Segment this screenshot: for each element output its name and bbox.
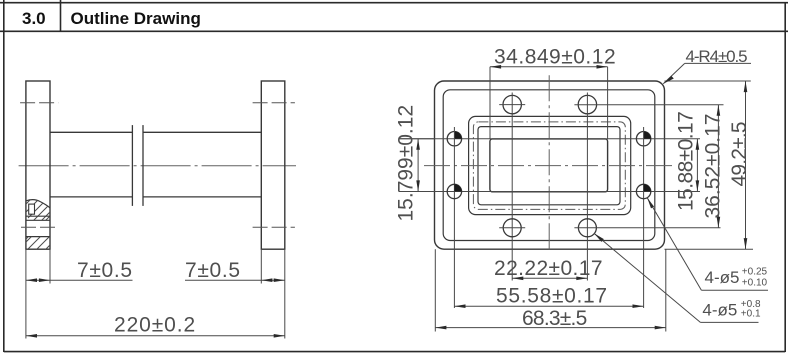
svg-text:34.849±0.12: 34.849±0.12 [494, 46, 616, 69]
flange outer outline [435, 81, 665, 249]
hole bottom-right [578, 219, 596, 237]
dimension 15.88 vertical [696, 139, 698, 192]
waveguide aperture [490, 139, 608, 192]
extension lines left view [26, 250, 285, 339]
svg-text:4-ø5: 4-ø5 [705, 268, 740, 287]
side hole left-top [447, 127, 461, 308]
svg-text:+0.25: +0.25 [742, 267, 768, 278]
dimension 34.849 [490, 66, 608, 68]
svg-text:220±0.2: 220±0.2 [114, 314, 196, 337]
svg-text:3.0: 3.0 [22, 9, 46, 28]
left flange [26, 81, 50, 249]
svg-text:49.2±.5: 49.2±.5 [728, 122, 751, 186]
dimension 36.52 vertical [717, 105, 719, 228]
horizontal centerline [424, 165, 676, 167]
svg-text:55.58±0.17: 55.58±0.17 [496, 285, 608, 308]
flange inner outline [443, 90, 655, 241]
vertical centerline [548, 75, 550, 252]
side hole left-bottom [447, 184, 461, 198]
side hole row lines [399, 138, 701, 140]
wire tube bottom [50, 196, 132, 198]
dimension 22.22 [512, 277, 587, 279]
hole bottom-left [503, 219, 521, 237]
right flange [261, 81, 285, 249]
dimension 49.2 vertical [745, 81, 747, 249]
dimension 7+-0.5 left [26, 279, 133, 281]
centerline [19, 165, 296, 167]
dimension 55.58 [454, 305, 643, 307]
hole top-right [578, 95, 596, 113]
svg-text:4-ø5: 4-ø5 [702, 301, 737, 320]
hidden gasket rect [473, 122, 625, 209]
svg-text:22.22±0.17: 22.22±0.17 [494, 257, 603, 280]
extension lines front view [399, 67, 754, 332]
inner step rect [478, 127, 620, 205]
side hole right-bottom [636, 184, 650, 198]
wire tube top [50, 131, 132, 133]
svg-text:15.799±0.12: 15.799±0.12 [395, 105, 418, 222]
face plate rect [469, 116, 631, 214]
section hatch lower [12, 234, 61, 253]
svg-text:36.52±0.17: 36.52±0.17 [702, 114, 725, 219]
svg-text:+0.1: +0.1 [741, 309, 761, 320]
svg-text:Outline Drawing: Outline Drawing [71, 9, 201, 28]
svg-text:4-R4±0.5: 4-R4±0.5 [686, 47, 748, 66]
label 4-R4 leader [663, 63, 684, 83]
svg-text:7±0.5: 7±0.5 [185, 259, 241, 282]
section break arc [26, 200, 50, 208]
bolt hole hidden lines bottom [21, 226, 57, 228]
section lines [26, 215, 50, 217]
svg-text:15.88±0.17: 15.88±0.17 [675, 112, 698, 211]
section hatch upper [16, 192, 70, 236]
dimension 15.799 vertical [417, 139, 419, 192]
svg-text:7±0.5: 7±0.5 [77, 259, 133, 282]
joint [131, 125, 133, 206]
channel notch rect [29, 204, 35, 214]
hole top-left [503, 95, 521, 113]
dimension 68.3 [435, 327, 666, 329]
label 4-dia5 upper leader [647, 198, 701, 291]
side hole right-top [636, 127, 650, 308]
bolt hole hidden lines top [20, 102, 58, 104]
svg-text:+0.10: +0.10 [742, 278, 768, 289]
label 4-dia5 lower leader [594, 233, 700, 322]
dimension 220+-0.2 [26, 335, 285, 337]
dimension 7+-0.5 right [185, 279, 285, 281]
svg-text:68.3±.5: 68.3±.5 [522, 307, 587, 330]
